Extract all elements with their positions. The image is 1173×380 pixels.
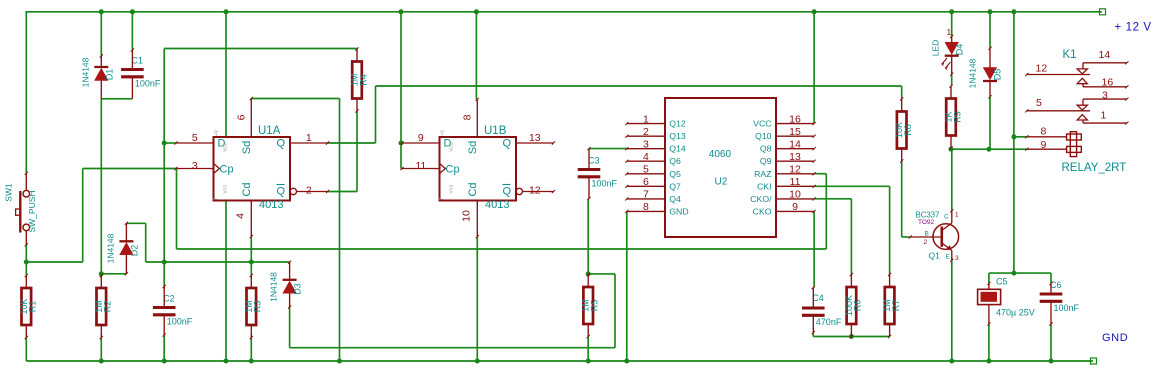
svg-text:D1: D1 [105,69,115,81]
svg-text:1: 1 [955,212,959,219]
svg-text:Q: Q [503,138,512,150]
svg-text:D3: D3 [293,283,303,295]
svg-text:12: 12 [529,185,541,197]
svg-text:RELAY_2RT: RELAY_2RT [1062,162,1127,174]
svg-text:3: 3 [643,138,649,150]
svg-text:Sd: Sd [241,141,253,154]
svg-text:2: 2 [306,185,312,197]
svg-text:1N4148: 1N4148 [269,272,279,302]
svg-text:C: C [944,214,949,221]
svg-text:7: 7 [439,197,445,200]
svg-text:R7: R7 [891,300,901,312]
svg-text:GND: GND [1102,332,1128,344]
svg-text:U1B: U1B [484,125,507,137]
svg-text:2: 2 [643,126,649,138]
svg-text:16: 16 [789,113,801,125]
svg-text:100nF: 100nF [592,179,618,189]
svg-text:VSS: VSS [223,184,228,193]
svg-text:D2: D2 [130,245,140,257]
svg-text:Q14: Q14 [669,144,686,154]
svg-text:GND: GND [669,206,688,216]
svg-text:+ 12 V: + 12 V [1115,22,1152,34]
svg-text:4013: 4013 [259,199,283,211]
svg-text:10: 10 [789,189,801,201]
svg-text:1N4148: 1N4148 [81,57,91,87]
svg-text:Cp: Cp [220,164,234,176]
svg-text:RAZ: RAZ [754,169,772,179]
svg-text:5: 5 [192,132,198,144]
svg-text:Q6: Q6 [669,156,681,166]
svg-text:E: E [946,254,951,261]
svg-text:SW_PUSH: SW_PUSH [27,190,37,232]
svg-text:1: 1 [947,27,952,37]
svg-text:C2: C2 [163,294,175,304]
svg-text:12: 12 [789,164,801,176]
svg-text:6: 6 [643,176,649,188]
svg-text:4060: 4060 [709,149,732,160]
svg-text:3: 3 [1102,90,1108,102]
svg-text:R2: R2 [103,301,113,313]
svg-text:D4: D4 [955,44,965,56]
svg-text:Cd: Cd [241,182,253,196]
svg-text:Cp: Cp [446,164,460,176]
svg-text:11: 11 [790,176,801,188]
svg-text:100nF: 100nF [1054,303,1080,313]
svg-text:Q8: Q8 [760,144,772,154]
svg-text:Q5: Q5 [669,169,681,179]
svg-text:13: 13 [529,132,541,144]
svg-text:13: 13 [789,151,801,163]
svg-text:LED: LED [931,40,941,57]
svg-text:1: 1 [643,113,649,125]
svg-text:470nF: 470nF [816,317,842,327]
svg-text:Q10: Q10 [755,131,772,141]
svg-text:8: 8 [1041,126,1047,138]
svg-text:11: 11 [415,160,426,172]
svg-text:R6: R6 [853,300,863,312]
svg-text:8: 8 [643,201,649,213]
svg-text:1N4148: 1N4148 [968,58,978,88]
svg-text:Sd: Sd [467,141,479,154]
svg-text:Cd: Cd [467,182,479,196]
svg-text:VDD: VDD [223,142,228,152]
svg-text:R9: R9 [952,111,962,123]
svg-text:Q7: Q7 [669,181,681,191]
svg-text:C5: C5 [996,277,1008,287]
svg-text:6: 6 [235,114,247,120]
svg-text:3: 3 [192,160,198,172]
svg-text:K1: K1 [1063,49,1077,61]
svg-text:Q4: Q4 [669,194,681,204]
svg-text:R8: R8 [903,124,913,136]
svg-text:D5: D5 [993,69,1003,81]
svg-text:3: 3 [955,255,959,262]
svg-text:4: 4 [234,213,246,219]
svg-text:1: 1 [306,132,312,144]
svg-text:14: 14 [789,138,801,150]
svg-text:VDD: VDD [449,142,454,152]
svg-text:Q12: Q12 [669,119,686,129]
svg-text:VCC: VCC [753,119,771,129]
svg-text:+V: +V [440,129,446,136]
svg-text:Q9: Q9 [760,156,772,166]
svg-text:4013: 4013 [485,199,509,211]
svg-text:Q: Q [503,186,512,198]
svg-text:C1: C1 [131,56,143,66]
svg-text:5: 5 [643,164,649,176]
svg-text:Q: Q [277,186,286,198]
svg-text:100nF: 100nF [135,79,161,89]
svg-text:2: 2 [924,239,928,246]
svg-text:U2: U2 [715,177,728,188]
svg-text:R3: R3 [253,301,263,313]
svg-text:Q1: Q1 [929,251,941,261]
svg-text:R1: R1 [28,301,38,313]
svg-text:16: 16 [1102,77,1114,89]
svg-text:U1A: U1A [258,125,281,137]
svg-text:1N4148: 1N4148 [106,233,116,263]
svg-text:470µ 25V: 470µ 25V [996,308,1035,318]
svg-text:15: 15 [789,126,801,138]
svg-text:R5: R5 [590,300,600,312]
svg-text:C4: C4 [812,293,824,303]
svg-text:CKI: CKI [757,181,771,191]
svg-text:7: 7 [643,189,649,201]
svg-text:1: 1 [1101,110,1107,122]
svg-text:100nF: 100nF [167,317,193,327]
svg-text:12: 12 [1036,63,1048,75]
svg-text:Q: Q [277,138,286,150]
svg-text:10: 10 [460,210,472,222]
svg-text:R4: R4 [358,74,368,86]
svg-text:+V: +V [214,129,220,136]
svg-text:Q13: Q13 [669,131,686,141]
svg-text:SW1: SW1 [4,183,14,202]
svg-text:14: 14 [1099,49,1111,61]
svg-text:7: 7 [213,197,219,200]
svg-text:B: B [925,231,929,238]
svg-text:4: 4 [643,151,649,163]
svg-text:C3: C3 [588,156,600,166]
svg-text:9: 9 [418,132,424,144]
svg-text:CKO/: CKO/ [750,194,772,204]
svg-text:TO92: TO92 [918,219,935,226]
svg-text:5: 5 [1036,97,1042,109]
svg-text:CKO: CKO [753,206,772,216]
svg-text:C6: C6 [1050,280,1062,290]
svg-text:9: 9 [792,201,798,213]
svg-text:VSS: VSS [449,184,454,193]
svg-text:8: 8 [461,114,473,120]
